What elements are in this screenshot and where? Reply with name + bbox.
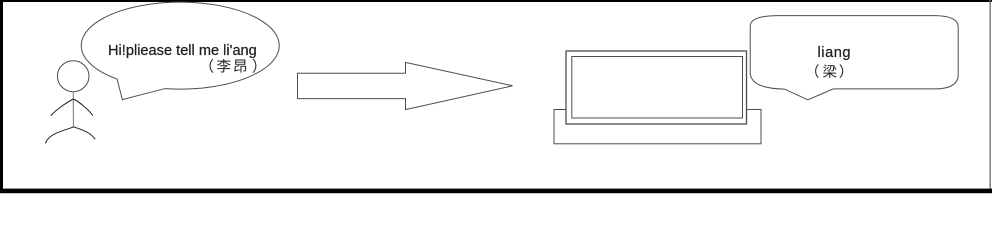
speech bubble (ellipse callout) around "Hi!pliease..." (81, 2, 279, 100)
stick figure body (72, 92, 74, 128)
rounded-rect callout "liang" (750, 16, 958, 100)
frame right border (990, 0, 991, 193)
stick figure right arm (74, 99, 93, 116)
text: （李昂） (209, 59, 213, 73)
text: （梁） (815, 64, 819, 78)
stick figure right leg (74, 127, 96, 139)
stick figure head (57, 61, 89, 92)
block arrow (298, 62, 513, 109)
frame top border (0, 0, 992, 2)
stick figure left leg (45, 127, 73, 143)
svg-text:liang: liang (818, 45, 852, 61)
monitor outer (566, 51, 747, 124)
svg-text:Hi!pliease tell me li'ang: Hi!pliease tell me li'ang (108, 43, 257, 59)
computer base (554, 110, 761, 144)
monitor screen (572, 57, 743, 119)
frame left border (0, 0, 3, 193)
stick figure left arm (51, 99, 73, 116)
frame bottom bar (0, 189, 992, 194)
